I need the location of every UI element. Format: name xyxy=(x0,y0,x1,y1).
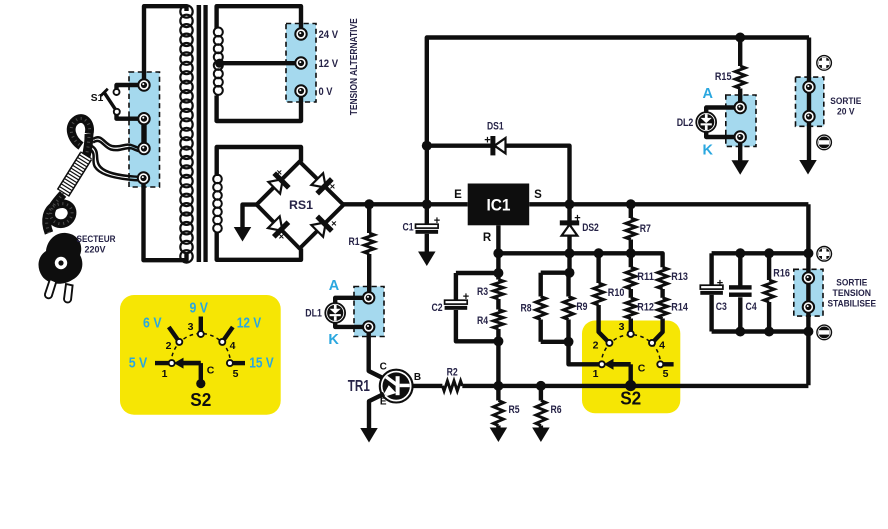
wire S rail (IC1 S to right) xyxy=(529,202,808,206)
svg-text:+: + xyxy=(717,278,723,290)
wire DL1 loop xyxy=(335,298,369,327)
svg-text:1: 1 xyxy=(593,368,599,380)
label tension alternative xyxy=(349,18,360,115)
wire R rail xyxy=(498,253,662,267)
svg-text:1: 1 xyxy=(162,368,168,380)
svg-text:0 V: 0 V xyxy=(319,86,334,98)
svg-text:DS2: DS2 xyxy=(582,222,599,234)
S2 left contacts xyxy=(169,360,175,366)
svg-text:SORTIE: SORTIE xyxy=(830,96,861,107)
svg-text:C4: C4 xyxy=(746,301,758,313)
wire S1 bottom contact to terminal2 xyxy=(117,114,145,119)
wire TR1 emitter to ground xyxy=(369,394,384,429)
svg-text:24 V: 24 V xyxy=(319,29,339,41)
resistor R6 xyxy=(539,386,543,401)
node out- xyxy=(803,327,813,337)
ground R6 xyxy=(532,428,550,443)
svg-text:12 V: 12 V xyxy=(237,316,262,332)
svg-text:TENSION: TENSION xyxy=(833,288,872,299)
svg-text:R14: R14 xyxy=(671,302,688,314)
ground TR1 xyxy=(360,428,378,443)
mains cord braid xyxy=(47,194,72,233)
resistor R7 xyxy=(629,204,633,218)
S2 right dashed arc xyxy=(601,335,660,365)
svg-text:S1: S1 xyxy=(91,92,104,104)
terminal DL1 A xyxy=(363,292,374,303)
terminal DL2 A xyxy=(735,102,746,113)
wire R3R4 column xyxy=(496,253,500,279)
diode DS2 xyxy=(562,225,578,236)
bridge RS1 diamond xyxy=(257,162,344,249)
S2 right contact 5 stub xyxy=(660,362,673,366)
svg-text:5: 5 xyxy=(663,368,669,380)
svg-text:×: × xyxy=(330,182,336,193)
transformer secondary winding 1 (24V) xyxy=(214,28,223,95)
node R rail R11 xyxy=(626,248,636,258)
node R5 top xyxy=(493,381,503,391)
wire DL2 loop xyxy=(706,108,740,138)
switch S1 lever xyxy=(104,93,117,112)
bridge diode top-right xyxy=(311,173,326,188)
svg-text:C3: C3 xyxy=(716,301,727,313)
svg-text:R5: R5 xyxy=(508,404,519,416)
node S2 right C xyxy=(625,380,636,391)
wire DS2 to R8/R9 xyxy=(567,253,571,272)
svg-text:R11: R11 xyxy=(637,271,654,283)
node center tap xyxy=(215,59,224,68)
wire IC1 R pin xyxy=(496,225,500,253)
terminal DL1 K xyxy=(363,321,374,332)
svg-text:A: A xyxy=(329,278,340,294)
bridge diode bottom-right xyxy=(311,222,326,237)
diode DS1 xyxy=(495,138,506,153)
terminal block DL2 xyxy=(726,95,756,146)
resistor R5 xyxy=(496,386,500,401)
svg-text:×: × xyxy=(277,168,283,179)
cord strain spring xyxy=(63,156,86,193)
svg-text:S: S xyxy=(534,189,542,201)
svg-text:E: E xyxy=(454,189,462,201)
S2 right C stub xyxy=(629,364,633,385)
yellow panel left (S2 rotary detail) xyxy=(120,295,281,415)
terminal DL2 K xyxy=(735,131,746,142)
yellow panel right (S2 in circuit) xyxy=(582,321,680,414)
svg-text:R15: R15 xyxy=(715,71,732,83)
wire secondary1 bottom to 0V terminal xyxy=(217,91,301,121)
svg-text:K: K xyxy=(328,332,339,348)
node R rail R10 xyxy=(594,248,604,258)
node C2 top xyxy=(493,268,503,278)
ground C1 xyxy=(418,252,436,267)
terminal 12V xyxy=(295,57,306,68)
wire DS1 branch xyxy=(427,146,570,205)
resistor R8 xyxy=(539,273,543,297)
resistor R3 xyxy=(493,280,503,300)
svg-text:2: 2 xyxy=(593,340,599,352)
terminal block sortie tension stabilisee xyxy=(794,269,823,316)
svg-text:×: × xyxy=(279,232,285,243)
svg-text:DL1: DL1 xyxy=(305,308,322,320)
capacitor C1 xyxy=(425,204,429,224)
terminal 24V xyxy=(295,28,306,39)
svg-text:R7: R7 xyxy=(640,223,651,235)
wire bottom rail (TR1 base line) xyxy=(412,384,442,388)
node C2 bottom xyxy=(493,336,503,346)
node DS1 left xyxy=(422,141,432,151)
node R16 bottom xyxy=(764,327,774,337)
svg-text:SECTEUR: SECTEUR xyxy=(77,234,116,245)
wire primary bottom xyxy=(144,178,187,260)
transformer T1 core xyxy=(197,5,202,262)
transistor TR1 xyxy=(380,370,413,403)
node R16 top xyxy=(764,248,774,258)
svg-text:+: + xyxy=(574,212,580,224)
svg-text:5 V: 5 V xyxy=(129,356,148,372)
terminal block mains (4 poles, S1 side) xyxy=(129,72,160,187)
switch S1 contacts xyxy=(114,89,120,95)
mains plug xyxy=(39,233,83,284)
terminal block sortie 20 V xyxy=(796,77,824,126)
S2 right rotor arrow xyxy=(613,362,631,367)
svg-text:20 V: 20 V xyxy=(837,106,855,117)
cord wire to terminal3 xyxy=(93,137,143,148)
terminal mains 2 xyxy=(138,113,149,124)
svg-text:C: C xyxy=(207,365,215,377)
node C4 bottom xyxy=(735,327,745,337)
S2 left C stub xyxy=(199,363,203,381)
wire primary top (terminal1 to primary) xyxy=(144,6,187,85)
svg-text:+: + xyxy=(463,291,469,303)
S2 left stub 2 xyxy=(169,327,180,342)
S2 left C dot xyxy=(196,379,205,388)
svg-text:S2: S2 xyxy=(620,388,641,409)
regulator IC1 xyxy=(468,184,530,226)
svg-text:C: C xyxy=(638,363,646,375)
wire main rail (bridge to IC1 E) xyxy=(344,202,468,206)
svg-text:R9: R9 xyxy=(576,301,587,313)
S2 left dashed arc xyxy=(171,334,230,364)
svg-text:R: R xyxy=(483,232,492,244)
capacitor C3 xyxy=(709,253,713,285)
svg-text:4: 4 xyxy=(659,340,665,352)
svg-text:B: B xyxy=(414,372,421,383)
bridge diode left-bottom xyxy=(268,216,283,231)
resistor R10 xyxy=(596,253,600,283)
resistor R9 xyxy=(566,273,570,297)
svg-text:E: E xyxy=(380,397,387,408)
minus symbol sortie 20V xyxy=(817,135,832,150)
terminal sortie20 + xyxy=(803,81,814,92)
svg-text:R2: R2 xyxy=(447,366,458,378)
resistor R14 xyxy=(660,289,664,298)
resistor R4 xyxy=(493,310,503,330)
terminal mains 4 xyxy=(138,172,149,183)
terminal stab - xyxy=(803,301,814,312)
transformer T1 primary winding xyxy=(180,5,192,262)
terminal 0V xyxy=(295,85,306,96)
node R8R9 bottom xyxy=(564,337,574,347)
plus symbol sortie stab xyxy=(817,247,832,262)
terminal block tension alternative (24/12/0 V) xyxy=(286,24,316,103)
svg-text:R4: R4 xyxy=(477,315,489,327)
wire DS2 column xyxy=(567,204,571,253)
node S-DS2 xyxy=(565,199,575,209)
terminal mains 3 xyxy=(138,143,149,154)
svg-text:+: + xyxy=(434,215,440,227)
ground DL2 xyxy=(731,160,749,175)
S2 left stub 1 xyxy=(155,361,172,365)
svg-text:R6: R6 xyxy=(550,404,561,416)
svg-text:R12: R12 xyxy=(637,302,654,314)
led DL1 xyxy=(325,303,345,323)
node out+ xyxy=(803,248,813,258)
ground at bridge left xyxy=(243,205,257,228)
node DS2 bottom rail xyxy=(565,248,575,258)
resistor R16 xyxy=(767,253,771,280)
svg-text:5: 5 xyxy=(233,368,239,380)
svg-text:15 V: 15 V xyxy=(249,356,274,372)
svg-text:2: 2 xyxy=(166,340,172,352)
svg-text:TENSION ALTERNATIVE: TENSION ALTERNATIVE xyxy=(349,18,360,115)
wire DL1 K to TR1 collector xyxy=(369,327,384,379)
led DL2 xyxy=(696,112,716,132)
svg-text:C: C xyxy=(380,362,387,373)
plus symbol sortie 20V xyxy=(817,56,832,71)
wire right column (S rail down to bottom rail) xyxy=(806,204,810,385)
resistor R11 xyxy=(629,253,633,267)
svg-text:A: A xyxy=(702,86,713,102)
S2 right contacts xyxy=(599,361,605,367)
svg-text:K: K xyxy=(702,142,713,158)
wire secondary2 top to bridge top xyxy=(217,147,301,176)
svg-text:SORTIE: SORTIE xyxy=(836,278,867,289)
cord wire to terminal4 xyxy=(92,146,143,177)
wire right bottom segment xyxy=(712,329,809,333)
resistor R15 xyxy=(738,38,742,67)
capacitor C2 xyxy=(445,300,468,304)
svg-text:12 V: 12 V xyxy=(319,58,339,70)
terminal mains 1 xyxy=(138,79,149,90)
node R rail DS2col xyxy=(565,248,575,258)
svg-text:6 V: 6 V xyxy=(143,316,162,332)
capacitor C4 xyxy=(738,253,742,285)
S2 left stub 5 xyxy=(230,361,245,365)
ground sortie 20V xyxy=(799,160,817,175)
terminal block DL1 xyxy=(354,287,384,337)
capacitor C2 wires xyxy=(456,271,499,275)
resistor R12 xyxy=(629,289,633,298)
svg-text:DL2: DL2 xyxy=(677,117,694,129)
terminal sortie20 - xyxy=(803,111,814,122)
svg-text:+: + xyxy=(484,135,490,147)
svg-text:R10: R10 xyxy=(608,287,625,299)
svg-text:C1: C1 xyxy=(402,222,413,234)
S2 left rotor arrow xyxy=(183,361,201,366)
transformer secondary winding 2 (to RS1) xyxy=(213,175,222,233)
svg-text:×: × xyxy=(331,218,337,229)
terminal stab + xyxy=(803,272,814,283)
resistor R13 xyxy=(658,267,668,289)
svg-text:R3: R3 xyxy=(477,286,488,298)
wire right top segment xyxy=(712,251,809,255)
svg-text:9 V: 9 V xyxy=(189,300,208,316)
resistor R2 xyxy=(442,381,462,391)
wire secondary1 center tap to 12V terminal xyxy=(220,61,301,65)
svg-text:R1: R1 xyxy=(348,236,359,248)
svg-text:STABILISEE: STABILISEE xyxy=(828,298,877,309)
ground R5 xyxy=(490,428,508,443)
wire secondary1 top to 24V terminal xyxy=(217,6,301,34)
S2 left stub 4 xyxy=(222,327,233,342)
minus symbol sortie stab xyxy=(817,325,832,340)
svg-text:RS1: RS1 xyxy=(289,198,313,212)
svg-text:3: 3 xyxy=(188,321,194,333)
svg-text:S2: S2 xyxy=(190,389,211,410)
svg-text:TR1: TR1 xyxy=(348,378,370,395)
svg-text:DS1: DS1 xyxy=(487,121,504,133)
wire DL2 K down xyxy=(738,137,742,161)
wire secondary2 bottom to bridge bottom xyxy=(217,232,301,260)
wire R8R9 bottom to S2 contact1 xyxy=(541,340,569,344)
wire sortie 20V column xyxy=(807,38,811,161)
svg-text:220V: 220V xyxy=(85,245,107,256)
svg-text:C2: C2 xyxy=(431,302,442,314)
node S-R7 xyxy=(626,199,636,209)
svg-text:IC1: IC1 xyxy=(487,196,511,215)
node R rail-R3 xyxy=(493,248,503,258)
node R6 top xyxy=(536,381,546,391)
wire terminal1 to S1 top contact xyxy=(117,85,145,89)
svg-text:R13: R13 xyxy=(671,271,688,283)
node C1 top xyxy=(422,199,432,209)
bridge diode left-top xyxy=(268,179,283,194)
node R15 top xyxy=(735,33,745,43)
node C4 top xyxy=(735,248,745,258)
resistor R1 xyxy=(367,204,371,233)
svg-text:3: 3 xyxy=(619,321,625,333)
svg-text:R8: R8 xyxy=(520,302,531,314)
internal link terminal2-terminal3 xyxy=(141,119,146,149)
S2 left stub 3 xyxy=(199,317,203,335)
node R1 top xyxy=(364,199,374,209)
svg-text:4: 4 xyxy=(230,340,236,352)
wire top rail from C1/DS1 column xyxy=(427,38,809,205)
svg-text:R16: R16 xyxy=(773,267,790,279)
node R9 top xyxy=(565,268,575,278)
